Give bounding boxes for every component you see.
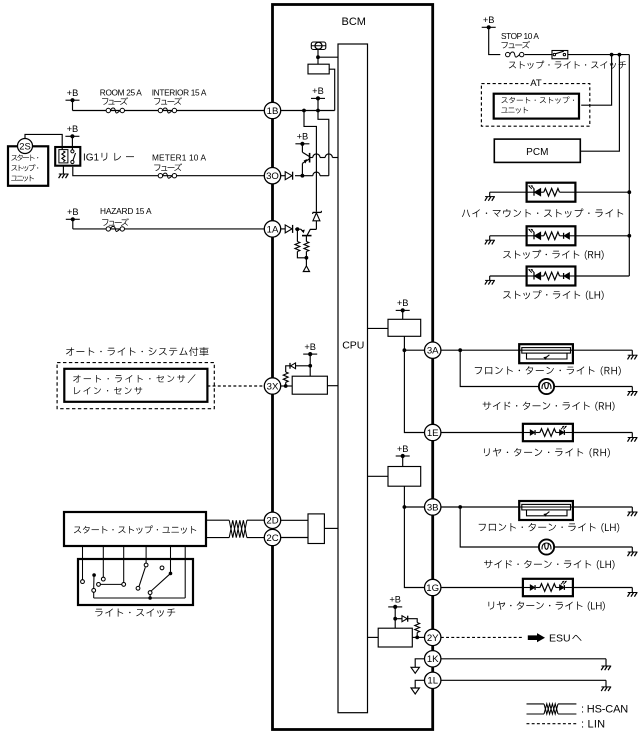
fuse ROOM 25 A <box>100 88 142 113</box>
svg-text:INTERIOR 15 A: INTERIOR 15 A <box>152 88 207 98</box>
resistor R2 <box>304 242 309 266</box>
relay IG1 <box>55 147 134 166</box>
ground (rear turn LH) <box>628 588 638 597</box>
svg-text:CPU: CPU <box>342 340 364 352</box>
svg-text:1L: 1L <box>427 676 438 687</box>
fuse HAZARD 15 A <box>100 206 152 231</box>
+B terminal (IG1 relay) <box>65 124 79 150</box>
auto light / rain sensor box <box>64 369 207 402</box>
diode D3 (3X) <box>290 363 312 369</box>
wire CPU to driver LH <box>368 475 389 477</box>
wire 1K continuation bracket <box>415 659 424 668</box>
+B terminal (ROOM/INTERIOR feed) <box>66 88 80 111</box>
svg-text:2Y: 2Y <box>427 633 439 644</box>
lamp side turn light LH <box>484 539 614 569</box>
wire +B to 1B <box>73 110 265 112</box>
wire 1G to rear turn LH <box>441 587 523 589</box>
svg-text:1G: 1G <box>426 583 439 594</box>
connector 1A <box>264 221 280 237</box>
svg-text:1A: 1A <box>267 224 279 235</box>
wire 3B to front turn LH <box>441 505 519 509</box>
ground (side turn RH) <box>628 387 638 396</box>
transistor Q2 (1A input) <box>297 229 316 241</box>
svg-text:ROOM 25 A: ROOM 25 A <box>100 88 142 98</box>
+B terminal (turn driver LH) <box>396 444 410 467</box>
ground (front turn RH) <box>628 350 638 359</box>
connector 2S <box>18 139 33 154</box>
indicator lamp symbol (inside BCM) <box>311 42 326 50</box>
wire 3X to block <box>281 385 293 387</box>
wire stop bus down <box>628 55 630 276</box>
svg-text:PCM: PCM <box>526 147 548 158</box>
wire 1L continuation bracket <box>415 680 424 688</box>
connector 3O <box>264 168 280 184</box>
svg-text:3A: 3A <box>427 346 439 357</box>
diode D1 (3O input) <box>285 172 292 180</box>
continuation arrow (1K) <box>411 667 419 673</box>
zener diode ZD1 <box>313 211 322 230</box>
svg-text:1B: 1B <box>267 106 279 117</box>
wire 2D to block <box>281 519 308 521</box>
block (lamp driver) <box>308 64 329 74</box>
wire CAN block to CPU <box>324 527 338 529</box>
svg-text:3X: 3X <box>267 381 279 392</box>
wire +B to 1A <box>73 228 264 230</box>
lamp side turn light RH <box>483 379 615 411</box>
ground (high-mount) <box>485 192 495 201</box>
lamp rear turn light RH <box>484 424 610 458</box>
svg-text:2C: 2C <box>266 533 278 544</box>
wire stop LH left to ground <box>490 275 527 277</box>
svg-text:3B: 3B <box>427 502 439 513</box>
connector 1L <box>425 672 441 688</box>
wire front RH to ground <box>573 349 632 351</box>
dashed box (auto light option) <box>57 363 214 409</box>
wire 1L to ground <box>441 679 606 681</box>
wires unit to light switch <box>83 546 186 598</box>
wire high-mount left to ground <box>490 191 527 193</box>
svg-text:: LIN: : LIN <box>581 719 605 731</box>
wire rear LH to ground <box>573 587 632 589</box>
resistor R3 <box>283 366 290 386</box>
+B terminal (turn driver RH) <box>396 298 410 319</box>
svg-text:+B: +B <box>397 444 409 454</box>
wire stop switch to bus <box>568 53 630 57</box>
BCM body control module box <box>273 5 433 730</box>
label auto light system <box>66 347 208 356</box>
svg-text:+B: +B <box>297 132 309 142</box>
wire 2Y block to 2Y <box>412 636 424 638</box>
diode D4 (2Y) <box>395 616 417 623</box>
dashed wire (LIN) 2Y to ESU <box>441 636 523 638</box>
wire +B node to 3O row <box>318 111 329 176</box>
svg-text:+B: +B <box>67 124 79 134</box>
fuse INTERIOR 15 A <box>152 88 207 113</box>
ground (1L) <box>601 680 611 691</box>
+B terminal (2Y) <box>388 595 402 619</box>
svg-text:2D: 2D <box>266 516 278 527</box>
wire 1B node down to zener <box>304 111 316 212</box>
twisted pair wires to 2D/2C <box>206 520 264 537</box>
ground (rear turn RH) <box>628 433 638 442</box>
svg-text:+B: +B <box>397 298 409 308</box>
diode D2 (1A input) <box>285 225 292 233</box>
CPU block <box>338 44 368 713</box>
transistor Q1 (3O driver) <box>302 144 309 176</box>
connector 1B <box>264 102 280 118</box>
connector 1E <box>425 424 441 440</box>
svg-text:3O: 3O <box>266 171 279 182</box>
connector 1G <box>425 579 441 595</box>
+B terminal (STOP feed) <box>482 15 501 55</box>
wire 1E to rear turn RH <box>441 432 523 434</box>
wire 2S to IG1 relay coil <box>25 134 62 149</box>
light switch contacts <box>81 563 164 594</box>
wire stop RH left to ground <box>490 235 527 237</box>
wire Q1 base to CPU <box>309 154 338 158</box>
block (CAN interface) <box>308 514 324 544</box>
wire stop RH right to bus <box>575 234 631 238</box>
fuse STOP 10 A <box>501 31 539 57</box>
lamp stop light RH <box>503 226 604 259</box>
wire branch to side turn LH <box>460 507 539 547</box>
wire block to 1B node <box>329 69 335 110</box>
svg-text:STOP 10 A: STOP 10 A <box>501 31 539 41</box>
svg-text:+B: +B <box>304 342 316 352</box>
wire 1A row <box>281 228 298 230</box>
+B terminal (3X pull-up) <box>303 342 317 376</box>
wire branch to side turn RH <box>460 350 539 386</box>
block (turn output driver LH) <box>388 467 421 487</box>
wire high-mount right to bus <box>575 190 631 194</box>
+B terminal (HAZARD feed) <box>66 207 80 229</box>
wire 1B node <box>264 109 334 113</box>
block (turn output driver RH) <box>388 319 421 336</box>
svg-text:AT: AT <box>530 78 542 89</box>
wire stop LH right to bus <box>575 275 629 277</box>
wire CPU to 2Y block <box>368 636 379 638</box>
ground (stop RH) <box>485 236 495 245</box>
svg-text:+B: +B <box>67 207 79 217</box>
lamp front turn light RH <box>475 344 621 375</box>
connector 3X <box>264 378 280 394</box>
continuation arrow (1A emitter) <box>303 266 309 272</box>
svg-text:+B: +B <box>312 86 324 96</box>
wire rear RH to ground <box>573 432 632 434</box>
start-stop unit box (AT) <box>494 94 579 119</box>
wire 3X block to CPU <box>327 385 338 387</box>
wire 2C to block <box>281 537 308 539</box>
dashed box AT <box>481 78 589 126</box>
wire CPU to driver RH <box>368 327 389 329</box>
ground (front turn LH) <box>628 507 638 516</box>
wire 1K to ground <box>441 658 606 660</box>
connector 1K <box>425 651 441 667</box>
svg-text:2S: 2S <box>19 140 30 151</box>
node 2Y diode junction <box>393 617 397 621</box>
svg-text:ESU: ESU <box>549 633 571 645</box>
light switch box <box>78 559 193 617</box>
dashed wire (LIN) sensor to 3X <box>207 385 264 387</box>
stop light switch <box>509 51 626 69</box>
light switch levers <box>92 567 172 591</box>
lamp high-mount stop light <box>462 183 623 218</box>
wire relay to 3O <box>73 167 264 176</box>
arrow to ESU <box>528 633 582 645</box>
ground (IG1 relay coil) <box>59 166 69 179</box>
resistor R1 <box>295 229 306 258</box>
svg-text:+B: +B <box>389 595 401 605</box>
wire junction to block <box>394 619 396 629</box>
connector 2Y <box>425 629 441 645</box>
+B terminal (inside BCM, 1B node) <box>311 86 325 110</box>
wire fuse to stop light switch <box>525 54 552 56</box>
resistor R4 (2Y) <box>415 623 420 640</box>
wire lamp to CPU <box>316 50 338 65</box>
block (3X interface) <box>292 376 327 394</box>
start-stop unit 2S box <box>8 146 48 186</box>
wire driver LH to 3B/1G <box>403 486 425 587</box>
wire front LH to ground <box>573 506 632 508</box>
svg-text:METER1 10 A: METER1 10 A <box>152 153 206 163</box>
legend LIN dashed symbol <box>527 719 606 731</box>
block (2Y interface) <box>378 628 412 647</box>
ground (stop LH) <box>485 276 495 285</box>
lamp rear turn light LH <box>488 579 604 611</box>
svg-text:BCM: BCM <box>342 16 366 28</box>
continuation arrow (1L) <box>411 688 419 694</box>
wire side RH to ground <box>554 386 632 388</box>
wire 3O row <box>281 172 329 176</box>
ground (1K) <box>601 659 611 670</box>
light switch bus wire <box>94 592 186 600</box>
+B terminal (3O driver) <box>295 132 309 146</box>
wire 3A to front turn RH <box>441 348 519 352</box>
PCM box <box>494 139 580 162</box>
svg-text:1E: 1E <box>427 428 439 439</box>
svg-text:IG1: IG1 <box>83 153 100 164</box>
connector 2D <box>264 512 280 528</box>
svg-text:HAZARD 15 A: HAZARD 15 A <box>100 206 152 216</box>
svg-text:1K: 1K <box>427 654 439 665</box>
connector 2C <box>264 529 280 545</box>
lamp front turn light LH <box>479 501 620 532</box>
svg-text:: HS-CAN: : HS-CAN <box>581 703 628 715</box>
legend HS-CAN twisted pair symbol <box>527 703 629 715</box>
node 1A junction <box>296 227 300 231</box>
wire branch to AT unit <box>581 55 611 106</box>
start-stop unit box (bottom left) <box>64 512 206 546</box>
wire branch to PCM <box>580 55 619 152</box>
wire side LH to ground <box>554 546 632 548</box>
wire driver RH to 3A/1E <box>403 336 425 432</box>
svg-text:+B: +B <box>67 88 79 98</box>
fuse METER1 10 A <box>152 153 206 179</box>
node 3X junction <box>284 384 288 388</box>
svg-text:+B: +B <box>483 15 495 25</box>
node 3O junction <box>301 174 305 178</box>
connector 3A <box>425 342 441 358</box>
ground (side turn LH) <box>628 547 638 556</box>
lamp stop light LH <box>503 267 604 301</box>
connector 3B <box>425 499 441 515</box>
